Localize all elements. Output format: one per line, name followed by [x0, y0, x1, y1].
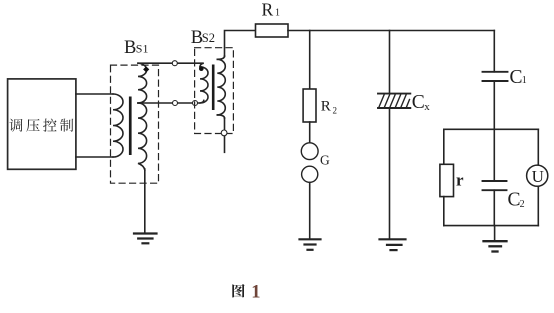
BS2 primary winding	[200, 67, 208, 103]
label R2	[321, 98, 337, 115]
label C2	[508, 190, 525, 211]
BS1 secondary winding upper (tapped)	[138, 63, 147, 103]
BS1 core	[129, 97, 132, 156]
capacitor CX bottom plate	[378, 107, 410, 109]
wire: BS2 secondary bottom stub	[224, 118, 226, 152]
control box label 调压控制	[9, 119, 73, 132]
wire: top rail R1 to C1 corner	[288, 30, 494, 32]
svg-text:1: 1	[275, 8, 280, 19]
wire: BS2 secondary top to top rail	[225, 31, 256, 57]
terminal on mid link (right)	[193, 101, 198, 106]
BS1 secondary winding lower	[138, 103, 147, 170]
svg-text:S2: S2	[202, 31, 215, 45]
label BS2	[191, 28, 215, 48]
wire: BS1 ground lead	[144, 169, 146, 234]
wire: C1 to divider node	[493, 81, 495, 181]
label BS1	[124, 38, 148, 58]
svg-text:U: U	[532, 167, 544, 186]
spark gap G sphere 2	[302, 166, 318, 182]
label CX	[412, 92, 431, 113]
ground (spark gap)	[300, 238, 321, 240]
transformer BS2 dashed enclosure	[195, 48, 234, 134]
wire: r branch upper	[443, 129, 445, 164]
ground (divider)	[494, 226, 496, 242]
wire: U branch upper	[537, 129, 539, 165]
svg-text:G: G	[320, 153, 330, 168]
svg-text:x: x	[424, 101, 430, 113]
ground (BS1 secondary)	[134, 232, 157, 234]
wire: mid link (BS1 tap to BS2 primary bottom)	[138, 100, 204, 103]
polarity diamond BS1	[143, 66, 149, 72]
svg-text:2: 2	[520, 199, 525, 210]
resistor R1	[256, 24, 289, 37]
spark gap G sphere 1	[301, 143, 318, 160]
wire: C2 to bottom rail	[493, 190, 495, 225]
label C1	[510, 67, 527, 88]
capacitor C2	[483, 180, 507, 182]
voltmeter U label	[532, 167, 544, 186]
svg-text:1: 1	[522, 75, 527, 86]
caption 图1	[232, 284, 244, 298]
wire: CX branch drop	[389, 31, 391, 94]
CX hatching	[379, 95, 410, 107]
wire: spark gap to ground	[309, 182, 311, 238]
wire: top link BS1 to BS2 primary	[138, 63, 204, 67]
polarity dot BS2	[199, 66, 204, 71]
svg-text:C: C	[508, 190, 521, 211]
label r	[456, 171, 464, 190]
BS2 secondary winding	[217, 59, 225, 115]
wire: R2 to spark gap	[309, 122, 311, 143]
wire: control box to BS1 primary (lower)	[76, 156, 113, 158]
BS2 core	[212, 65, 215, 111]
svg-text:S1: S1	[136, 42, 149, 56]
terminal on top link	[172, 61, 177, 66]
ground (CX)	[380, 238, 406, 240]
voltmeter U	[527, 165, 548, 186]
label G	[320, 153, 330, 168]
BS1 primary winding	[113, 94, 123, 157]
terminal on mid link (left)	[173, 101, 178, 106]
BS2 secondary winding exit	[217, 115, 224, 118]
svg-text:2: 2	[333, 105, 338, 115]
resistor r	[440, 164, 454, 196]
wire: R2 branch drop	[309, 31, 311, 90]
wire: CX to ground	[389, 108, 391, 239]
transformer BS1 dashed enclosure	[111, 65, 159, 183]
svg-text:1: 1	[251, 282, 260, 302]
svg-text:C: C	[510, 67, 523, 88]
svg-text:B: B	[124, 38, 136, 58]
terminal at BS2 box bottom	[221, 130, 227, 136]
capacitor CX (test object) top plate	[378, 93, 410, 95]
wire: divider bottom rail	[444, 225, 539, 227]
svg-text:R: R	[262, 0, 274, 20]
wire: divider top rail	[444, 128, 539, 130]
capacitor C1	[483, 71, 508, 73]
BS2 secondary winding entry	[217, 56, 224, 59]
wire: C1 branch drop	[493, 31, 495, 72]
resistor R2	[303, 89, 316, 122]
svg-text:C: C	[412, 92, 425, 113]
control box (voltage regulation control)	[8, 79, 76, 169]
wire: control box to BS1 primary (upper)	[76, 93, 113, 95]
wire: r branch lower	[443, 197, 445, 226]
label R1	[262, 0, 281, 20]
wire: U branch lower	[537, 186, 539, 225]
svg-text:r: r	[456, 171, 464, 190]
svg-text:R: R	[321, 98, 331, 114]
